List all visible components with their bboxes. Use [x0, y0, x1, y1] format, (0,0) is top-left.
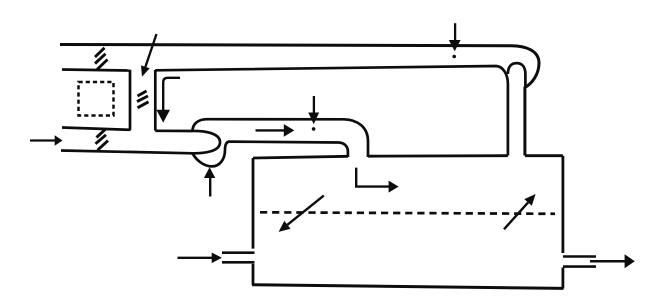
- hook arrow showing flow turning down inside channel: [163, 78, 180, 110]
- diagonal arrow pointing at restriction passage: [145, 34, 156, 67]
- tank right wall lower segment: [562, 268, 565, 289]
- dot below middle duct arrow: [312, 127, 316, 131]
- tank left wall lower segment: [252, 264, 255, 285]
- lower pipe rounded end cap: [191, 131, 220, 153]
- down arrow piercing top duct wall: [454, 23, 456, 40]
- tank inlet pipe stub walls: [222, 253, 255, 263]
- dot below top duct arrow: [452, 55, 456, 59]
- piston (dashed square): [79, 82, 114, 116]
- lower pipe top wall: [155, 129, 192, 132]
- tank right wall upper segment: [562, 156, 565, 253]
- diagonal arrow in tank pointing down-left: [287, 196, 323, 225]
- cylinder bottom wall: [62, 128, 131, 130]
- tank top wall right segment: [525, 154, 563, 157]
- hatch marks below cylinder: [96, 129, 109, 151]
- tank top wall left segment: [253, 156, 348, 158]
- cylinder top wall: [62, 70, 130, 71]
- hatch marks in restriction passage: [137, 91, 149, 108]
- tank outlet pipe stub walls: [563, 257, 596, 267]
- middle duct top wall with left fillet + right bend + drop pipe right wall: [193, 119, 369, 157]
- flow arrow inside middle duct: [256, 129, 285, 131]
- duct second wall (top duct bottom) running right into vertical pipe left wall: [155, 66, 508, 156]
- elbow arrow under drop pipe inside tank: [356, 168, 389, 187]
- restriction passage left wall (duct side): [154, 70, 157, 131]
- diagonal arrow in tank pointing up-right: [504, 202, 528, 229]
- down arrow piercing middle duct wall: [313, 96, 315, 113]
- tank top wall middle segment: [368, 154, 508, 157]
- outer casing top wall with right-end bend into vertical pipe: [60, 45, 539, 156]
- tank inlet flow arrow: [178, 257, 213, 259]
- tank left wall upper segment: [252, 158, 255, 249]
- inlet flow arrow into lower pipe (left): [30, 139, 56, 141]
- tank outlet flow arrow: [590, 260, 626, 263]
- hatch marks above cylinder: [95, 48, 108, 70]
- tank liquid level dashed line: [260, 212, 555, 214]
- lower pipe bottom wall: [61, 151, 193, 154]
- tank bottom wall: [252, 285, 564, 289]
- cylinder right wall: [129, 70, 132, 130]
- gooseneck outer bend + middle duct bottom wall + drop pipe left wall: [193, 142, 348, 167]
- up arrow below gooseneck bend: [209, 178, 211, 197]
- vertical pipe top cap (right gooseneck): [508, 63, 526, 87]
